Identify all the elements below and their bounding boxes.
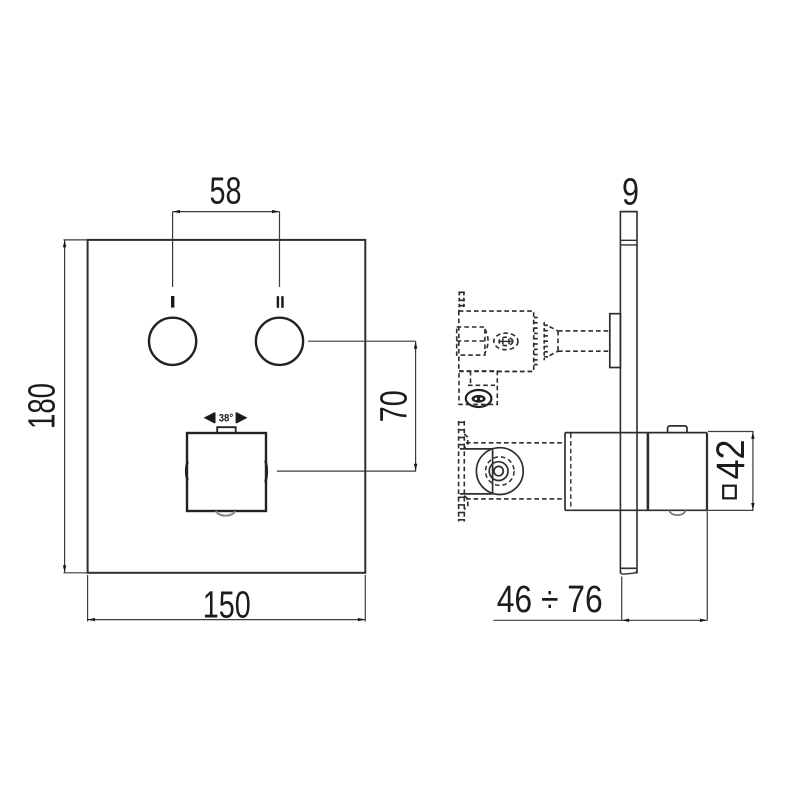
svg-text:150: 150 [203,585,251,627]
svg-text:70: 70 [373,390,415,422]
svg-text:38°: 38° [219,412,234,424]
svg-text:58: 58 [210,171,242,213]
svg-text:42: 42 [709,440,753,480]
svg-text:9: 9 [622,172,639,214]
svg-text:46 ÷ 76: 46 ÷ 76 [497,579,603,621]
svg-text:180: 180 [21,383,63,429]
